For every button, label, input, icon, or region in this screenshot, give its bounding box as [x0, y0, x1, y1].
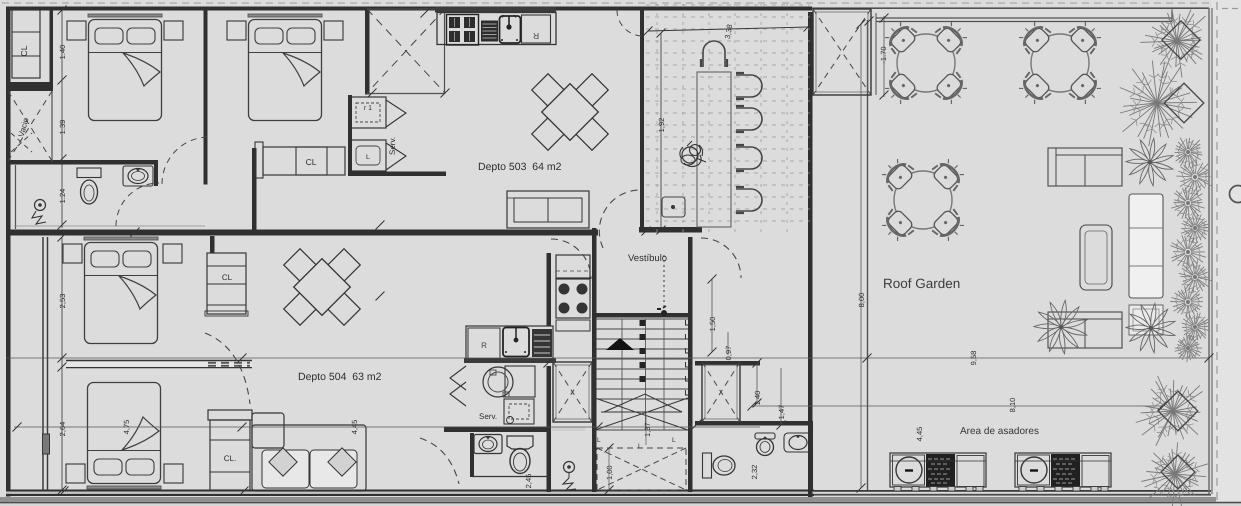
sink504: [503, 328, 529, 357]
dim 1,00 stairs: [605, 444, 615, 495]
bottom scan band: [0, 497, 1241, 506]
dim 2,32 bath: [750, 465, 759, 480]
gym chair top: [701, 41, 727, 67]
svg-text:r 1: r 1: [364, 105, 372, 112]
bed B2 bedroom2: [248, 14, 322, 121]
door arc bedroom3: [205, 333, 250, 404]
door arc vestibule left: [551, 239, 591, 279]
wall bath503 top: [7, 160, 158, 186]
stair lower V: [595, 394, 688, 430]
door arc apt503 right: [701, 238, 741, 278]
gym chair 2: [736, 106, 762, 132]
gym bin: [662, 197, 685, 217]
sofa depto503: [507, 191, 589, 228]
elevator shaft top right: [813, 9, 871, 95]
svg-text:0,97: 0,97: [724, 346, 733, 361]
door arc bedroom2: [162, 137, 209, 184]
wall left inner shaft: [43, 237, 48, 490]
dim 1,92 gym: [657, 29, 667, 235]
svg-text:2,64: 2,64: [58, 422, 67, 437]
svg-text:L: L: [366, 154, 370, 161]
fan palm 2: [1034, 300, 1087, 354]
svg-text:Depto 503 64 m2: Depto 503 64 m2: [478, 161, 562, 173]
svg-text:4,75: 4,75: [122, 420, 131, 435]
laundry r1 box: [350, 97, 386, 128]
label depto504: [298, 371, 382, 383]
closet CL bedroom3: [205, 253, 248, 316]
svg-text:CL.: CL.: [224, 454, 236, 463]
tree spiky 1: [1140, 9, 1205, 78]
door arc apt504 entry: [420, 438, 459, 484]
svg-text:1,92: 1,92: [657, 118, 666, 133]
dim 1,37 stairs: [643, 412, 652, 445]
stair balusters: [686, 320, 691, 395]
vacio label: [17, 116, 31, 138]
dim line 8.00 vertical: [857, 20, 867, 493]
tree spiky 3: [1136, 376, 1203, 446]
void shaft kitchen X: [367, 9, 445, 93]
garden table 1: [881, 18, 971, 108]
svg-text:8,00: 8,00: [857, 293, 866, 308]
side table B3 right: [163, 244, 182, 263]
under-stair shaft X: [597, 448, 686, 490]
garden sofa 2: [1048, 312, 1122, 348]
fridge R 504: [468, 328, 500, 359]
wall apt503 kitchen side: [365, 11, 370, 95]
svg-text:2,32: 2,32: [750, 465, 759, 480]
wall garden left: [867, 20, 869, 490]
wall bath503b jog: [695, 361, 760, 366]
svg-text:1,37: 1,37: [643, 422, 652, 437]
svg-text:2,45: 2,45: [524, 474, 533, 489]
dish rack 503: [481, 21, 498, 42]
wall bed3 closet stub: [210, 236, 215, 253]
roof garden top wall double: [876, 8, 1172, 22]
laundry door zigzag A: [386, 100, 406, 127]
svg-text:CL: CL: [306, 157, 317, 167]
wall terrace right border: [1209, 8, 1212, 494]
svg-text:1,40: 1,40: [753, 391, 762, 406]
closet CL bedroom2 bank: [255, 142, 345, 178]
door arc bath503: [116, 183, 159, 226]
dim line 9,58 horizontal: [6, 351, 1214, 366]
fern bushes column: [1170, 138, 1211, 362]
gym door arc: [617, 10, 643, 36]
wall void right thin: [444, 7, 446, 94]
dim 1,50: [708, 275, 718, 357]
grill unit 2: [1015, 453, 1111, 491]
label depto503: [478, 161, 562, 173]
svg-text:CL: CL: [19, 45, 29, 56]
svg-text:Serv.: Serv.: [479, 412, 497, 421]
wall outer bottom: [6, 490, 814, 497]
wall bath503 inner lite: [14, 165, 205, 229]
elevator mid left: [553, 362, 592, 422]
tree spiky 4: [1141, 442, 1208, 506]
svg-text:Vestíbulo: Vestíbulo: [628, 253, 667, 264]
stair L marks: [597, 437, 676, 450]
side table B4 left: [66, 464, 85, 483]
wall apt division upper: [6, 230, 369, 236]
dim 1.39: [58, 120, 67, 135]
washer 504: [483, 366, 535, 397]
dryer 504: [504, 399, 534, 424]
svg-text:L: L: [638, 443, 642, 450]
closet CL bedroom4: [208, 410, 252, 490]
sink503: [500, 15, 521, 43]
garden table 3: [878, 155, 968, 245]
svg-text:L: L: [672, 437, 676, 444]
svg-text:4,45: 4,45: [350, 420, 359, 435]
kitchen503 top wall band: [435, 7, 556, 13]
wall stair left: [592, 228, 597, 492]
fan palm 1: [1126, 138, 1173, 186]
terrace dashed property line: [1216, 2, 1218, 504]
circle mark right margin: [1230, 186, 1241, 203]
dim 2,64: [58, 422, 67, 437]
wall under gym: [639, 227, 702, 233]
bed B4 bedroom4: [87, 383, 161, 490]
kitchen504 door pleats: [450, 366, 466, 406]
svg-text:R: R: [533, 31, 539, 41]
toilet bath503b: [703, 453, 736, 478]
stair top wall: [592, 313, 692, 318]
serv label 503: [388, 137, 397, 155]
toilet bath504: [507, 436, 533, 474]
svg-text:CL: CL: [222, 273, 233, 282]
roof garden label: [883, 276, 960, 291]
planter diamond 2: [1164, 83, 1204, 123]
wall vestibule left lower: [547, 366, 552, 492]
planter diamond 1: [1162, 21, 1200, 59]
kitchen503 counter: [437, 13, 556, 45]
svg-text:1,47: 1,47: [777, 405, 786, 420]
garden coffee table: [1129, 305, 1163, 335]
serv label 504: [479, 412, 497, 421]
svg-text:2,53: 2,53: [58, 294, 67, 309]
bed B3 bedroom3: [84, 237, 158, 344]
vacio shaft left: [6, 10, 53, 162]
dim 1.24: [58, 189, 67, 204]
wall hatch marks: [60, 9, 874, 496]
vanity1 bath503b: [755, 433, 775, 456]
dim 1,70 garden: [876, 13, 889, 100]
top boundary dashed line: [2, 2, 1212, 4]
stove504: [556, 279, 590, 318]
svg-text:8,10: 8,10: [1008, 398, 1017, 413]
dim 2,45 bath504: [524, 474, 533, 489]
door arc apt503 left: [599, 190, 640, 248]
dim line mid horizontal: [13, 420, 761, 435]
fridge R 503: [522, 15, 551, 43]
side table B3 left: [63, 244, 82, 263]
wall bedroom1/2 divider: [204, 11, 208, 185]
planter diamond 3: [1158, 391, 1198, 431]
door arc vacio: [11, 133, 32, 152]
dim 2,53: [58, 294, 67, 309]
garden table 2: [1015, 18, 1105, 108]
sink bath503: [123, 166, 153, 186]
dim 0,97: [724, 332, 733, 360]
svg-text:9,58: 9,58: [969, 351, 978, 366]
svg-text:1.39: 1.39: [58, 120, 67, 135]
wall outer left: [6, 7, 11, 497]
grill unit 1: [890, 453, 986, 491]
bed B1 bedroom1: [88, 14, 162, 121]
shower bath503: [32, 200, 46, 225]
elevator mid right: [702, 362, 740, 422]
side table B1 left: [67, 21, 86, 40]
garden chaise: [1129, 194, 1163, 298]
dim 1.40: [58, 45, 67, 60]
wall vestibule left upper: [547, 253, 552, 326]
dim line 8,10: [748, 398, 1167, 413]
wall bath503b top: [695, 421, 813, 490]
shower bath504: [563, 462, 576, 491]
wall outer top: [6, 7, 812, 11]
wall bed4 sliding: [66, 361, 252, 368]
side table B1 right: [164, 21, 183, 40]
svg-text:1.40: 1.40: [58, 45, 67, 60]
wall outer top right thin: [812, 7, 1209, 9]
wall bath504 divider: [444, 427, 585, 478]
cabinet 504 low: [556, 320, 590, 331]
stair north arrow: [606, 338, 634, 350]
vestibulo label: [628, 253, 667, 264]
closet CL top-left: [12, 10, 40, 78]
svg-text:Depto 504 63 m2: Depto 504 63 m2: [298, 371, 382, 383]
gym chair 4: [736, 187, 762, 213]
side table B2 left: [227, 21, 246, 40]
tree spiky 2: [1120, 61, 1197, 147]
dim 1,47 bath: [777, 368, 787, 430]
dining set depto504: [284, 249, 361, 326]
dim 4,45 right: [915, 427, 924, 442]
cabinet 504: [556, 255, 590, 278]
svg-text:Serv.: Serv.: [388, 137, 397, 155]
garden armchair: [1080, 225, 1112, 290]
svg-text:1,50: 1,50: [708, 317, 717, 332]
svg-text:4,45: 4,45: [915, 427, 924, 442]
wall stair right: [688, 237, 693, 492]
laundry door zigzag B: [386, 143, 406, 170]
vanity2 bath503b: [784, 433, 812, 452]
toilet bath503: [77, 168, 101, 204]
stair center dotted: [657, 255, 667, 316]
svg-text:Roof Garden: Roof Garden: [883, 276, 960, 291]
gym person: [680, 141, 706, 167]
asadores label: [960, 426, 1039, 437]
stove503: [447, 15, 479, 46]
sofa depto504: [252, 413, 366, 491]
kitchen504 counter: [464, 326, 556, 363]
svg-text:L: L: [597, 437, 601, 444]
wall bottom right (terrace): [814, 490, 1211, 496]
wall gym/living: [640, 11, 644, 228]
gym desk: [697, 72, 731, 227]
shaft fixture: [43, 434, 50, 454]
laundry L sink: [350, 140, 386, 171]
svg-text:Area de asadores: Area de asadores: [960, 426, 1039, 437]
gym chair 1: [736, 73, 762, 99]
terrace top dash stub: [1222, 8, 1240, 10]
svg-text:R: R: [481, 341, 487, 350]
dim 1,40 bath: [753, 359, 763, 408]
wall living503 bottom: [369, 230, 598, 236]
dim 3,38 gym: [644, 23, 813, 40]
wall void bottom: [367, 93, 445, 95]
garden sofa 1: [1048, 148, 1122, 186]
vanity bath504: [474, 435, 502, 454]
svg-text:-1.70: -1.70: [879, 46, 888, 63]
dish rack 504: [532, 329, 552, 357]
wall vestibule right column: [808, 12, 813, 497]
left dim line: [58, 6, 67, 495]
gym chair 3: [736, 145, 762, 171]
planter diamond 4: [1161, 455, 1195, 489]
dining set depto503: [532, 74, 609, 151]
serv wall bottom 503: [348, 95, 446, 176]
fan palm 3: [1126, 303, 1175, 353]
svg-text:1,00: 1,00: [605, 465, 614, 480]
wall corridor right: [252, 148, 257, 230]
side table B4 right: [164, 464, 183, 483]
right margin strip: [1211, 0, 1241, 506]
svg-text:1.24: 1.24: [58, 189, 67, 204]
side table B2 right: [324, 21, 343, 40]
stair treads: [596, 319, 688, 430]
gym floor grid dashed: [646, 4, 810, 232]
